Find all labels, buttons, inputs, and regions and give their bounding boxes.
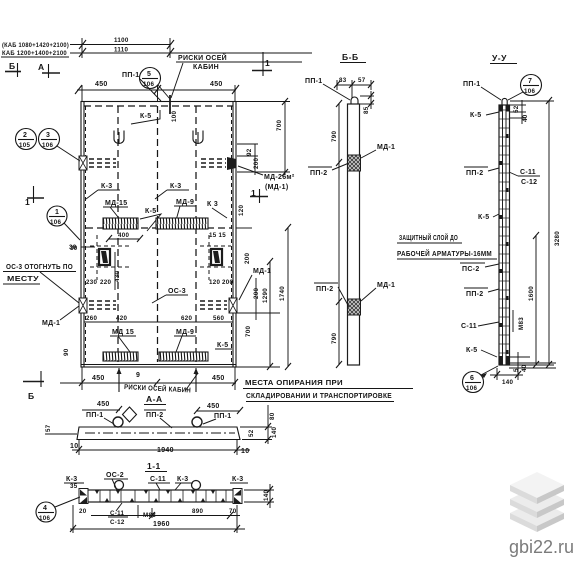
svg-text:450: 450 (95, 81, 108, 88)
svg-text:С-11: С-11 (520, 169, 536, 176)
svg-text:106: 106 (466, 385, 477, 392)
svg-text:ПП-1: ПП-1 (305, 78, 323, 85)
svg-text:85: 85 (363, 106, 370, 114)
svg-text:52: 52 (248, 429, 255, 437)
svg-text:1100: 1100 (114, 37, 129, 44)
svg-text:450: 450 (92, 375, 105, 382)
svg-text:52: 52 (513, 105, 520, 113)
svg-text:К 3: К 3 (207, 201, 218, 208)
svg-text:МЕСТУ: МЕСТУ (7, 276, 39, 283)
svg-text:С-11: С-11 (150, 476, 166, 483)
svg-text:ПП-2: ПП-2 (466, 170, 484, 177)
svg-text:220: 220 (100, 279, 111, 286)
svg-text:А: А (38, 62, 45, 72)
svg-text:40: 40 (522, 114, 529, 122)
svg-text:57: 57 (358, 77, 366, 84)
svg-text:gbi22.ru: gbi22.ru (509, 537, 574, 557)
svg-text:70: 70 (229, 508, 237, 515)
svg-text:106: 106 (50, 219, 61, 226)
svg-text:140: 140 (502, 379, 513, 386)
svg-text:МД-1: МД-1 (42, 320, 60, 327)
svg-text:К-5: К-5 (466, 347, 477, 354)
svg-text:К-3: К-3 (66, 476, 77, 483)
svg-text:450: 450 (212, 375, 225, 382)
svg-text:С-11: С-11 (461, 323, 477, 330)
svg-text:450: 450 (207, 403, 220, 410)
svg-text:К-5: К-5 (478, 214, 489, 221)
svg-text:Б: Б (9, 61, 16, 71)
svg-text:450: 450 (97, 401, 110, 408)
svg-text:К-3: К-3 (177, 476, 188, 483)
svg-text:КАБИН: КАБИН (193, 64, 219, 71)
svg-text:106: 106 (39, 515, 50, 522)
svg-text:ПП-2: ПП-2 (316, 286, 334, 293)
svg-text:140: 140 (263, 490, 270, 501)
svg-text:700: 700 (245, 326, 252, 337)
svg-text:260: 260 (86, 315, 97, 322)
svg-text:1940: 1940 (157, 447, 174, 454)
svg-text:890: 890 (192, 508, 203, 515)
svg-text:К-3: К-3 (101, 183, 112, 190)
svg-text:105: 105 (19, 142, 30, 149)
svg-text:100: 100 (171, 111, 178, 122)
svg-text:К-5: К-5 (145, 208, 156, 215)
svg-text:ПП-2: ПП-2 (146, 412, 164, 419)
svg-text:МЕСТА ОПИРАНИЯ ПРИ: МЕСТА ОПИРАНИЯ ПРИ (245, 380, 343, 387)
svg-text:10: 10 (70, 443, 78, 450)
svg-text:1740: 1740 (279, 286, 286, 301)
svg-text:106: 106 (42, 142, 53, 149)
svg-text:106: 106 (524, 88, 535, 95)
svg-text:30: 30 (69, 244, 77, 251)
svg-text:1110: 1110 (114, 47, 129, 54)
svg-text:3: 3 (46, 132, 50, 139)
svg-text:790: 790 (331, 131, 338, 142)
svg-text:ПП-1: ПП-1 (214, 413, 232, 420)
svg-text:200: 200 (253, 158, 260, 169)
svg-text:6: 6 (470, 375, 474, 382)
svg-text:400: 400 (118, 232, 129, 239)
svg-text:МД-26м²: МД-26м² (264, 174, 295, 181)
svg-text:4: 4 (43, 505, 47, 512)
svg-text:120: 120 (209, 279, 220, 286)
svg-text:ПП-2: ПП-2 (310, 170, 328, 177)
svg-text:140: 140 (271, 427, 278, 438)
svg-text:200: 200 (244, 253, 251, 264)
svg-text:450: 450 (210, 81, 223, 88)
svg-text:ОС-3 ОТОГНУТЬ ПО: ОС-3 ОТОГНУТЬ ПО (6, 264, 73, 271)
svg-text:ПП-1: ПП-1 (122, 72, 140, 79)
svg-text:790: 790 (331, 333, 338, 344)
svg-text:ПП-1: ПП-1 (463, 81, 481, 88)
svg-text:40: 40 (521, 364, 528, 372)
svg-text:9: 9 (136, 372, 140, 379)
svg-text:1: 1 (251, 188, 256, 198)
svg-text:С-12: С-12 (110, 519, 125, 526)
svg-text:420: 420 (116, 315, 127, 322)
svg-text:А-А: А-А (146, 394, 163, 404)
svg-text:(МД-1): (МД-1) (265, 184, 289, 191)
svg-text:К-3: К-3 (232, 476, 243, 483)
svg-text:120: 120 (238, 205, 245, 216)
svg-text:ПП-1: ПП-1 (86, 412, 104, 419)
svg-text:1290: 1290 (262, 288, 269, 303)
svg-text:35: 35 (70, 483, 78, 490)
svg-text:КАБ 1200+1400+2100: КАБ 1200+1400+2100 (2, 50, 67, 57)
svg-text:83: 83 (339, 77, 347, 84)
svg-text:57: 57 (45, 424, 52, 432)
svg-text:МД-9: МД-9 (176, 329, 194, 336)
svg-text:С-12: С-12 (521, 179, 537, 186)
svg-text:10: 10 (241, 448, 249, 455)
svg-text:620: 620 (181, 315, 192, 322)
svg-text:80: 80 (269, 412, 276, 420)
svg-text:К-3: К-3 (170, 183, 181, 190)
svg-text:К-5: К-5 (470, 112, 481, 119)
svg-text:700: 700 (276, 120, 283, 131)
svg-text:3280: 3280 (554, 231, 561, 246)
svg-text:ЗАЩИТНЫЙ СЛОЙ ДО: ЗАЩИТНЫЙ СЛОЙ ДО (399, 233, 458, 242)
svg-text:СКЛАДИРОВАНИИ И ТРАНСПОРТИРОВК: СКЛАДИРОВАНИИ И ТРАНСПОРТИРОВКЕ (246, 393, 392, 400)
svg-text:15 15: 15 15 (209, 232, 226, 239)
svg-text:560: 560 (213, 315, 224, 322)
svg-text:1: 1 (55, 209, 59, 216)
svg-text:200: 200 (253, 288, 260, 299)
svg-text:1-1: 1-1 (147, 461, 161, 471)
svg-text:РАБОЧЕЙ АРМАТУРЫ-16ММ: РАБОЧЕЙ АРМАТУРЫ-16ММ (397, 249, 492, 258)
svg-text:90: 90 (63, 348, 70, 356)
svg-text:ПП-2: ПП-2 (466, 291, 484, 298)
svg-text:У-У: У-У (492, 53, 507, 63)
svg-text:МД-1: МД-1 (377, 144, 395, 151)
svg-text:7: 7 (528, 78, 532, 85)
svg-text:200: 200 (222, 279, 233, 286)
svg-text:МД-1: МД-1 (253, 268, 271, 275)
svg-text:ОС-2: ОС-2 (106, 472, 124, 479)
svg-text:5: 5 (513, 368, 520, 372)
svg-text:92: 92 (246, 148, 253, 156)
svg-text:М83: М83 (518, 317, 525, 330)
svg-text:1960: 1960 (153, 521, 170, 528)
svg-text:МД 15: МД 15 (112, 329, 134, 336)
svg-text:1: 1 (265, 58, 270, 68)
svg-text:МД-9: МД-9 (176, 199, 194, 206)
svg-text:РИСКИ ОСЕЙ: РИСКИ ОСЕЙ (178, 53, 227, 62)
svg-text:5: 5 (147, 71, 151, 78)
svg-text:Б-Б: Б-Б (342, 52, 359, 62)
svg-text:Б: Б (28, 391, 35, 401)
svg-text:ОС-3: ОС-3 (168, 288, 186, 295)
svg-text:К-5: К-5 (217, 342, 228, 349)
svg-text:К-5: К-5 (140, 113, 151, 120)
svg-text:20: 20 (79, 508, 87, 515)
svg-text:ПС-2: ПС-2 (462, 266, 480, 273)
svg-text:2: 2 (23, 132, 27, 139)
svg-text:(КАБ 1080+1420+2100): (КАБ 1080+1420+2100) (2, 42, 69, 49)
svg-text:230: 230 (86, 279, 97, 286)
svg-text:МД-15: МД-15 (105, 200, 127, 207)
svg-text:1600: 1600 (528, 286, 535, 301)
svg-text:МД-1: МД-1 (377, 282, 395, 289)
